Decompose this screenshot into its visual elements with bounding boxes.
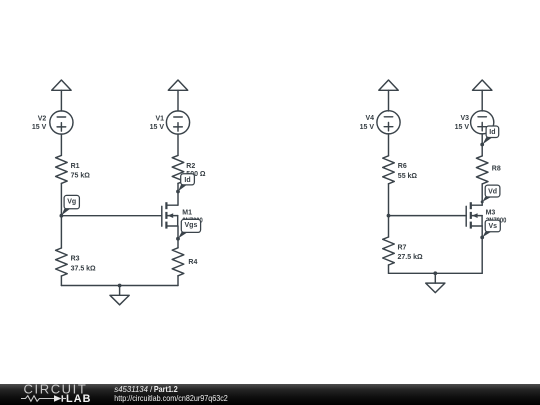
svg-text:75 kΩ: 75 kΩ xyxy=(71,173,91,180)
svg-text:Id: Id xyxy=(184,177,190,184)
svg-text:15 V: 15 V xyxy=(150,124,165,131)
svg-text:Vg: Vg xyxy=(67,198,76,205)
svg-text:LAB: LAB xyxy=(66,393,92,405)
transistor M3 (NMOS) xyxy=(466,202,482,228)
wire R7 to ground rail xyxy=(388,265,390,273)
voltage source V3 xyxy=(471,111,494,134)
node right ground junction xyxy=(433,271,437,275)
svg-text:Vgs: Vgs xyxy=(185,222,198,229)
annotation flag Vgs xyxy=(178,219,200,238)
resistor R8 xyxy=(476,156,488,184)
wire arrow to V1 xyxy=(177,90,179,111)
wire R4 to ground rail xyxy=(177,276,179,286)
annotation flag Vd xyxy=(482,185,500,202)
svg-text:R2: R2 xyxy=(186,163,195,170)
svg-text:R1: R1 xyxy=(71,163,80,170)
resistor R4 xyxy=(172,248,184,276)
wire divider node to R7 xyxy=(388,216,390,237)
power supply arrow for V4 xyxy=(379,80,398,90)
wire V2 to R1 xyxy=(60,134,62,155)
wire R1 to node Vg xyxy=(60,183,62,215)
annotation flag Vs xyxy=(483,220,501,237)
wire left ground rail xyxy=(61,285,178,287)
power supply arrow for V1 xyxy=(168,80,187,90)
voltage source V4 xyxy=(377,111,400,134)
wire R3 to ground rail xyxy=(60,276,62,286)
wire M3 source to ground rail xyxy=(481,226,483,273)
transistor M1 (NMOS) xyxy=(162,202,178,228)
wire V3 to R8 with Id probe xyxy=(481,134,483,156)
annotation flag Id right xyxy=(483,126,499,144)
logo resistor squiggle xyxy=(21,396,54,402)
svg-text:http://circuitlab.com/cn82ur97: http://circuitlab.com/cn82ur97q63c2 xyxy=(114,393,228,403)
wire V1 to R2 xyxy=(177,134,179,155)
resistor R7 xyxy=(383,237,395,265)
power supply arrow for V2 xyxy=(52,80,71,90)
svg-text:Vd: Vd xyxy=(488,188,497,195)
resistor R6 xyxy=(383,156,395,184)
wire arrow to V3 xyxy=(481,90,483,111)
footer banner xyxy=(0,384,540,405)
svg-text:V3: V3 xyxy=(460,115,469,122)
svg-text:55 kΩ: 55 kΩ xyxy=(398,173,418,180)
svg-text:V1: V1 xyxy=(155,115,164,122)
wire R8 to M3 drain xyxy=(481,184,483,205)
wire R2 to M1 drain xyxy=(177,183,179,205)
wire M1 source to R4 xyxy=(177,226,179,248)
svg-text:V2: V2 xyxy=(38,115,47,122)
node Vd probe xyxy=(481,200,484,203)
resistor R1 xyxy=(56,155,68,183)
svg-text:Vs: Vs xyxy=(488,223,497,230)
svg-text:R6: R6 xyxy=(398,163,407,170)
node Vs probe xyxy=(480,236,484,240)
svg-text:15 V: 15 V xyxy=(455,124,470,131)
wire right ground rail xyxy=(389,272,483,274)
node left ground junction xyxy=(118,284,122,288)
ground left circuit xyxy=(110,286,129,305)
svg-text:R7: R7 xyxy=(398,244,407,251)
svg-text:R8: R8 xyxy=(492,166,501,173)
node Id probe right xyxy=(480,143,484,147)
wire arrow to V4 xyxy=(388,90,390,111)
wire arrow to V2 +terminal xyxy=(60,90,62,111)
power supply arrow for V3 xyxy=(473,80,492,90)
node M1 source (Vgs probe) xyxy=(176,237,180,241)
annotation flag Vg xyxy=(61,195,79,215)
annotation flag Id left xyxy=(178,174,194,192)
node Vg xyxy=(60,214,64,218)
voltage source V1 xyxy=(166,111,189,134)
svg-text:V4: V4 xyxy=(365,115,374,122)
node M1 drain (Id probe) xyxy=(176,190,180,194)
resistor R2 xyxy=(172,155,184,183)
svg-text:37.5 kΩ: 37.5 kΩ xyxy=(71,265,96,272)
resistor R3 xyxy=(56,248,68,276)
wire R6 to divider node xyxy=(388,184,390,216)
voltage source V2 xyxy=(50,111,73,134)
logo diode xyxy=(54,395,62,401)
svg-text:R4: R4 xyxy=(188,259,197,266)
wire gate wire to M3 xyxy=(389,215,467,217)
svg-text:15 V: 15 V xyxy=(32,124,47,131)
wire node Vg to R3 xyxy=(60,216,62,248)
ground right circuit xyxy=(426,273,445,292)
node divider node xyxy=(387,214,391,218)
svg-text:M3: M3 xyxy=(486,210,496,217)
svg-text:M1: M1 xyxy=(182,209,192,216)
wire V4 to R6 xyxy=(388,134,390,156)
svg-text:R3: R3 xyxy=(71,256,80,263)
banner background xyxy=(0,384,540,405)
wire gate wire Vg to M1 xyxy=(61,215,161,217)
svg-text:27.5 kΩ: 27.5 kΩ xyxy=(398,254,423,261)
svg-text:15 V: 15 V xyxy=(360,124,375,131)
svg-text:Id: Id xyxy=(489,129,495,136)
